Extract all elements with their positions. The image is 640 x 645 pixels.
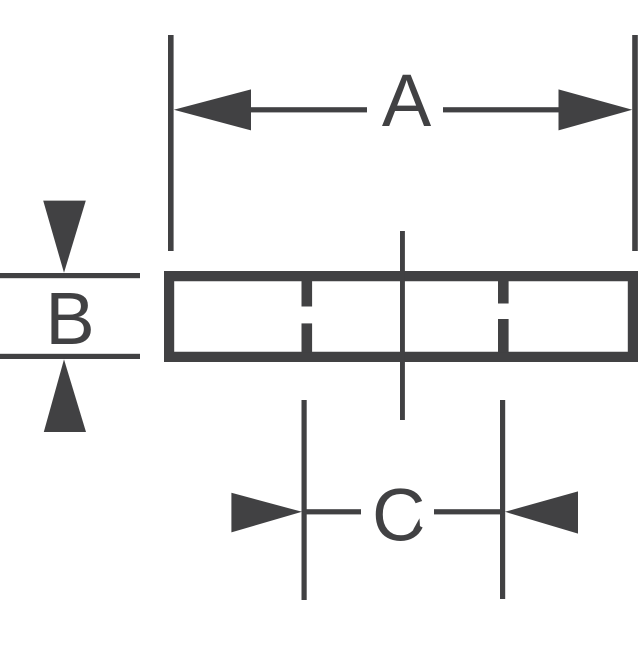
centerline vertical (400, 231, 405, 420)
dimension line A right segment (443, 107, 561, 112)
arrowhead C right pointing left (505, 491, 578, 533)
part outline rectangle (164, 271, 638, 362)
svg-text:C: C (372, 474, 425, 557)
svg-text:B: B (45, 277, 94, 360)
arrowhead B up (44, 359, 86, 432)
extension line left (dimension A) (168, 35, 174, 251)
extension line bottom (dimension B) (0, 354, 140, 359)
dimension line C left segment (304, 509, 361, 514)
extension line top (dimension B) (0, 273, 140, 278)
svg-text:A: A (382, 59, 432, 142)
extension line left (dimension C) (302, 400, 307, 600)
arrowhead B down (43, 201, 86, 273)
break line 2 upper segment (498, 280, 509, 304)
dimension line A left segment (248, 107, 367, 112)
extension line right (dimension A) (632, 35, 638, 251)
dimension line C right segment (434, 509, 503, 514)
arrowhead C left pointing right (231, 493, 302, 533)
arrowhead A left (174, 89, 251, 130)
break line 2 lower segment (498, 319, 509, 352)
arrowhead A right (559, 89, 633, 130)
extension line right (dimension C) (500, 400, 505, 599)
break line 1 lower segment (302, 323, 313, 352)
break line 1 upper segment (302, 280, 313, 307)
label C lower-arm terminal patch (413, 518, 420, 530)
